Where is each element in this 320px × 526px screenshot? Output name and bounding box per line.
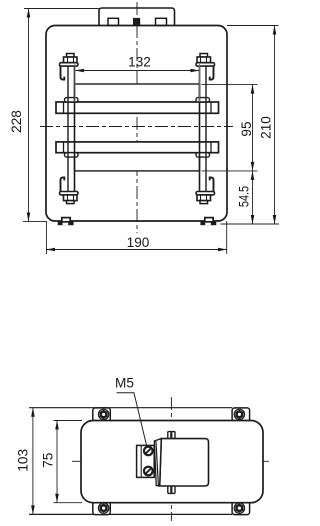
dim 103 line	[32, 408, 34, 515]
screw top-left	[98, 409, 108, 419]
small washer above upper clamp right	[196, 98, 210, 102]
right top washer	[196, 63, 215, 66]
hinge wedge inner line	[156, 441, 159, 486]
left top hook	[61, 66, 65, 80]
screw top-right	[234, 409, 244, 419]
terminal cover on top	[99, 8, 175, 26]
left bottom washer	[60, 192, 79, 195]
terminal screw upper	[144, 447, 153, 456]
cover left edge tilted	[160, 439, 162, 486]
body outline (top view)	[46, 26, 227, 222]
secondary cover tab bottom	[168, 486, 175, 494]
right foot tab	[205, 218, 213, 222]
arrows 132	[75, 69, 84, 73]
right top hook	[210, 66, 214, 80]
corner pad top-left	[93, 408, 111, 421]
screw bottom-left	[98, 503, 108, 513]
right stud shank	[199, 64, 201, 192]
vertical centerline bottom view	[170, 397, 172, 521]
lower pad rectangle between studs	[75, 153, 200, 171]
dim 132 line	[75, 70, 200, 72]
body outline (bottom view)	[81, 421, 263, 503]
clamp bar upper end caps	[63, 102, 65, 113]
mounting plate top edge	[29, 407, 232, 409]
dim 228 ext bottom	[23, 221, 47, 223]
arrows 95	[251, 85, 255, 94]
terminal screw lower	[144, 467, 153, 476]
dim 190 ext lines	[46, 221, 48, 254]
left top washer	[60, 63, 79, 66]
horizontal centerline bottom view	[72, 460, 272, 462]
hinge wedge	[154, 439, 161, 486]
terminal strip inner line	[140, 445, 142, 477]
secondary cover tab top	[168, 432, 175, 440]
cover tab right	[156, 18, 167, 25]
right top hex nut	[197, 57, 211, 63]
arrows 210	[273, 26, 277, 35]
dim 210 line	[274, 26, 276, 225]
corner pad bottom-left	[93, 501, 111, 514]
dim 54.5 line	[252, 171, 254, 224]
cover tab middle (filled)	[134, 19, 140, 26]
svg-text:75: 75	[40, 453, 55, 468]
left bottom hex nut	[64, 195, 78, 201]
dim 95/54.5 shared ext	[202, 170, 258, 172]
M5 underline	[117, 392, 135, 394]
right bottom hex nut	[197, 195, 211, 201]
clamp bar upper	[56, 102, 219, 113]
tab marks	[170, 432, 172, 439]
dim 132 ext lines	[74, 64, 76, 102]
screw bottom-right	[234, 503, 244, 513]
dim 210 ext top	[227, 25, 279, 27]
mounting plate bottom edge	[29, 513, 232, 515]
clamp bar lower end caps	[63, 142, 65, 153]
svg-text:103: 103	[15, 449, 30, 472]
left top stud tip	[67, 54, 75, 58]
dim 228 ext top	[24, 8, 99, 10]
clamp bar lower	[56, 142, 219, 153]
small washer below lower clamp left	[65, 153, 79, 157]
dim 75 ext top	[54, 420, 83, 422]
right bottom hook	[210, 177, 214, 191]
arrows 190	[46, 248, 55, 252]
corner pad bottom-right	[232, 501, 250, 514]
left foot tab	[62, 218, 70, 222]
dim 75 line	[56, 421, 58, 503]
arrows 75	[55, 421, 59, 430]
dim 54.5/210 ext bottom	[221, 223, 280, 225]
dim 190 line	[46, 249, 227, 251]
arrows 228	[27, 9, 31, 18]
arrows 54.5	[251, 171, 255, 180]
svg-text:228: 228	[9, 110, 24, 133]
svg-text:M5: M5	[115, 376, 134, 391]
left bottom hook	[61, 177, 65, 191]
vertical centerline top view	[136, 2, 138, 233]
corner pad top-right	[232, 408, 250, 421]
svg-text:210: 210	[259, 116, 274, 139]
right foot pads	[200, 221, 216, 225]
M5 leader	[134, 393, 147, 445]
cover tab left	[108, 18, 119, 25]
dimensions bottom view	[33, 393, 147, 515]
right top stud tip	[200, 54, 208, 58]
left stud shank	[67, 64, 69, 192]
svg-text:132: 132	[128, 55, 151, 70]
horizontal centerline top view	[40, 126, 233, 128]
svg-text:95: 95	[239, 121, 254, 136]
svg-text:54.5: 54.5	[236, 186, 251, 207]
left foot pads	[58, 221, 74, 225]
arrows 103	[31, 408, 35, 417]
small washer below lower clamp right	[196, 153, 210, 157]
right bottom washer	[196, 192, 215, 195]
upper pad rectangle between studs	[75, 84, 200, 102]
small washer above upper clamp left	[65, 98, 79, 102]
secondary cover box	[160, 439, 209, 486]
right bottom stud tip	[200, 201, 208, 204]
dim 75 ext bottom	[54, 502, 83, 504]
dim 95 line	[252, 85, 254, 171]
dim 95 ext top	[202, 84, 258, 86]
left bottom stud tip	[67, 201, 75, 204]
svg-text:190: 190	[127, 235, 150, 250]
left top hex nut	[64, 57, 78, 63]
dim 228 line	[28, 9, 30, 222]
terminal strip	[137, 445, 155, 477]
